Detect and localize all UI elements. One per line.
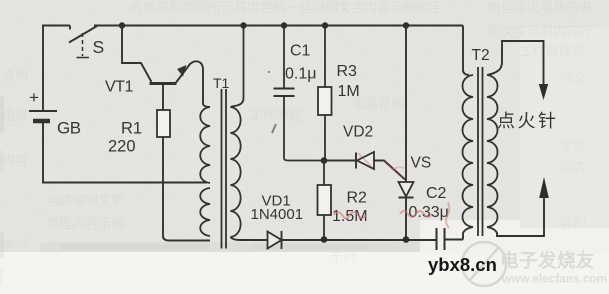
switch S blade (69, 26, 97, 43)
svg-text:0.33μ: 0.33μ (409, 204, 449, 221)
battery GB positive wire (43, 26, 70, 112)
T2 primary winding (463, 75, 474, 227)
capacitor C1 (274, 26, 324, 161)
wire: T2 primary top lead (463, 26, 469, 76)
battery GB symbol (29, 110, 57, 112)
svg-text:C2: C2 (426, 185, 447, 202)
diode VD1 (268, 231, 282, 249)
wire: emitter lead into T1 (203, 104, 210, 107)
svg-text:示例: 示例 (330, 250, 356, 265)
resistor R3 (318, 26, 332, 161)
node: junction dot C1 top (281, 22, 287, 28)
resistor R2 (318, 161, 332, 240)
svg-text:www.elecfans.com: www.elecfans.com (501, 272, 607, 286)
svg-text:T2: T2 (472, 47, 490, 64)
svg-text:明内: 明内 (560, 160, 586, 175)
svg-text:新型点火电路的说: 新型点火电路的说 (488, 0, 592, 15)
wire: T1 secondary top lead (231, 26, 244, 108)
T1 primary lower winding (200, 188, 210, 236)
stray mark (272, 124, 276, 133)
node: junction dot mid (321, 157, 328, 164)
svg-text:GB: GB (57, 119, 81, 138)
resistor R1 (157, 110, 170, 137)
svg-text:点火针: 点火针 (497, 111, 559, 131)
svg-text:VS: VS (411, 155, 432, 172)
svg-text:工作原理: 工作原理 (250, 108, 302, 123)
svg-text:的电路图如图所示其中包括一些说明文字内容示例的字: 的电路图如图所示其中包括一些说明文字内容示例的字 (130, 0, 442, 15)
T1 primary upper winding (200, 107, 210, 183)
wire: secondary top output (487, 41, 544, 84)
svg-text:VD2: VD2 (343, 124, 373, 141)
arrow up (spark gap bottom) (539, 177, 549, 198)
wire: mid node to VD2 (324, 160, 356, 162)
svg-text:工作原理说: 工作原理说 (520, 44, 585, 59)
node: junction dot bottom R2 (321, 236, 328, 243)
wire: collector feed (122, 26, 152, 83)
node: junction dot T1 secondary top (240, 22, 246, 28)
arrow down (spark gap top) (539, 84, 548, 100)
wire: VS anode rail (403, 22, 409, 28)
svg-text:ybx8.cn: ybx8.cn (428, 254, 497, 275)
svg-text:字说: 字说 (560, 138, 586, 153)
svg-text:电路说明文字: 电路说明文字 (46, 193, 124, 208)
svg-text:明文字示例内容行: 明文字示例内容行 (488, 24, 592, 39)
left edge smudge marks (0, 96, 4, 132)
wire: bottom rail (282, 239, 437, 241)
svg-text:R2: R2 (347, 190, 368, 207)
wire: R1 to T1 winding bottom (163, 137, 210, 241)
svg-text:T1: T1 (213, 75, 230, 91)
svg-text:容的: 容的 (560, 216, 586, 231)
node: junction dot bottom VS (403, 236, 410, 243)
T1 secondary winding (231, 107, 241, 237)
svg-text:C1: C1 (290, 43, 311, 60)
node: junction dot R3 top (322, 22, 328, 28)
switch S actuator dashed (82, 33, 84, 56)
red pen marks (334, 212, 366, 218)
svg-text:R1: R1 (121, 120, 142, 138)
wire: VD2 to VS gate (374, 161, 405, 180)
transformer T1 (200, 89, 240, 249)
svg-text:VT1: VT1 (105, 79, 133, 96)
thyristor VS (399, 182, 414, 240)
svg-text:电路: 电路 (2, 108, 28, 123)
svg-text:内容: 内容 (2, 153, 28, 168)
svg-text:电路说明: 电路说明 (352, 96, 404, 111)
svg-text:电子发烧友: 电子发烧友 (500, 250, 595, 271)
svg-text:S: S (93, 37, 105, 57)
svg-text:R3: R3 (337, 63, 358, 80)
stamp circle watermark (462, 242, 506, 286)
svg-text:原理内容示例: 原理内容示例 (46, 216, 124, 231)
T1 core (221, 89, 223, 249)
svg-text:+: + (29, 88, 39, 107)
svg-text:1M: 1M (338, 83, 360, 100)
T2 core (477, 67, 479, 236)
T2 secondary winding (487, 75, 498, 227)
svg-text:字行: 字行 (2, 238, 28, 253)
capacitor C2 (437, 228, 464, 250)
svg-text:1N4001: 1N4001 (251, 206, 304, 223)
wire: T2 primary bottom lead (463, 227, 473, 240)
battery GB negative wire (43, 123, 207, 183)
node: junction dot top rail / collector (119, 22, 125, 28)
diode VD2 (356, 152, 374, 169)
transformer T2 (463, 26, 498, 240)
svg-text:220: 220 (108, 138, 136, 156)
wire: T1 secondary bottom to rail (231, 237, 268, 240)
svg-text:0.1μ: 0.1μ (285, 66, 316, 83)
svg-text:行文: 行文 (560, 70, 586, 85)
wire: secondary bottom output (487, 196, 544, 236)
wire: top rail (94, 25, 463, 27)
svg-text:说明: 说明 (2, 68, 28, 83)
transistor VT1 (150, 61, 204, 110)
